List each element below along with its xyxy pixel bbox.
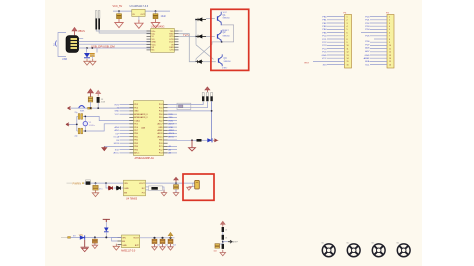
wire RXD to crossover (down then right) bbox=[179, 34, 197, 62]
svg-text:SDA: SDA bbox=[365, 60, 370, 63]
svg-text:GND: GND bbox=[134, 111, 139, 113]
svg-text:ADC7: ADC7 bbox=[169, 123, 175, 126]
capacitor C10 (orange) bbox=[152, 239, 157, 243]
svg-text:7: 7 bbox=[347, 36, 348, 38]
svg-text:5: 5 bbox=[347, 29, 348, 31]
wire R2 to MCU PC5 bbox=[168, 101, 208, 108]
svg-text:PC3: PC3 bbox=[159, 153, 163, 155]
svg-text:DTR: DTR bbox=[169, 39, 174, 41]
power bar symbol (above D10) bbox=[103, 219, 110, 222]
power flag above C12 (tan) bbox=[168, 233, 172, 238]
svg-text:PD6: PD6 bbox=[134, 127, 138, 129]
wire UD+ (from ESD D2 to IC1) bbox=[99, 30, 150, 34]
wire D3 to Q1 base bbox=[206, 18, 215, 20]
svg-text:UD-: UD- bbox=[152, 34, 156, 36]
wire stub F1 to reset rail bbox=[90, 102, 92, 108]
junction C10 bbox=[153, 237, 155, 239]
wire R1 to MCU PC4 bbox=[168, 101, 204, 104]
pull-up resistor R2 bbox=[206, 93, 208, 97]
ground arrow (left of crystal) bbox=[66, 123, 69, 126]
svg-text:AREF: AREF bbox=[364, 57, 370, 60]
svg-text:VCC: VCC bbox=[223, 12, 228, 14]
svg-text:MOSI: MOSI bbox=[114, 143, 120, 145]
MCU right net labels (blue) bbox=[169, 114, 175, 155]
ground on LED row bbox=[189, 140, 196, 151]
svg-text:GND: GND bbox=[124, 188, 129, 190]
svg-text:6: 6 bbox=[347, 32, 348, 34]
svg-text:USB_DP/USB_DM: USB_DP/USB_DM bbox=[91, 44, 115, 48]
capacitor C5 (crystal top) bbox=[77, 115, 78, 117]
svg-text:CTS: CTS bbox=[170, 50, 175, 52]
ground under U5 (hollow) bbox=[113, 244, 119, 250]
svg-text:10uF: 10uF bbox=[161, 15, 167, 18]
svg-text:PD3: PD3 bbox=[134, 104, 138, 106]
header P1 pin numbers (inside) bbox=[347, 16, 349, 66]
svg-text:47u: 47u bbox=[99, 188, 102, 190]
junction Q2 emitter bbox=[221, 41, 223, 43]
svg-text:11: 11 bbox=[347, 48, 349, 50]
input pad (gold) bbox=[61, 236, 68, 238]
ground under FB1 bbox=[161, 190, 166, 196]
wire stub D6 to reset rail bbox=[97, 103, 99, 108]
capacitor C4 (vertical plates) bbox=[90, 54, 95, 56]
svg-text:12: 12 bbox=[347, 52, 349, 54]
svg-text:PC2: PC2 bbox=[159, 149, 163, 151]
wire USB D+ to IC1 bbox=[79, 43, 151, 45]
diode D6 (vertical, black) bbox=[97, 97, 100, 103]
wire rail to U5 pins bbox=[112, 237, 122, 241]
MCU left net wires bbox=[104, 105, 129, 153]
junction crystal bottom bbox=[84, 130, 86, 132]
highlight rectangle 1 (red) bbox=[211, 9, 249, 70]
wire crystal taps bbox=[84, 116, 86, 131]
svg-text:16: 16 bbox=[347, 64, 349, 66]
diode D4 (series, row2) bbox=[196, 35, 206, 38]
capacitor C7 (electrolytic) bbox=[95, 183, 97, 185]
svg-text:PB1: PB1 bbox=[134, 136, 138, 138]
wire vertical link diode1-diode2 bbox=[195, 20, 197, 37]
ground under C8 bbox=[173, 190, 178, 196]
svg-text:ADC6: ADC6 bbox=[169, 132, 175, 135]
svg-text:PC6: PC6 bbox=[159, 111, 163, 113]
junction D6/rail bbox=[97, 107, 99, 109]
wire U3 GND pin bbox=[138, 16, 140, 20]
junction R3/PC6 bbox=[211, 110, 213, 112]
power flag at C8 node bbox=[174, 177, 178, 182]
U4 pin names bbox=[124, 183, 129, 194]
svg-text:14: 14 bbox=[347, 58, 349, 60]
wire U1 TXD pin to net label bbox=[179, 30, 183, 32]
svg-text:RXD: RXD bbox=[169, 114, 174, 116]
junction C8 top bbox=[175, 182, 177, 184]
ESD diode D1 (vertical, black) bbox=[96, 11, 98, 19]
svg-text:RTS: RTS bbox=[170, 36, 175, 38]
svg-text:10: 10 bbox=[389, 45, 391, 47]
svg-text:PD4: PD4 bbox=[134, 107, 138, 109]
svg-text:DCD: DCD bbox=[169, 42, 174, 44]
wire R6-R7 bbox=[222, 232, 224, 235]
diode D10 (blue, vertical) bbox=[105, 222, 107, 228]
svg-text:PWRIN: PWRIN bbox=[73, 181, 82, 185]
pull-up resistor R3 bbox=[211, 93, 213, 97]
junction on GND rail at LED bbox=[86, 47, 88, 49]
svg-text:TXD: TXD bbox=[183, 34, 189, 38]
IC U1 body bbox=[151, 28, 175, 52]
junction right bbox=[155, 10, 157, 12]
svg-text:PD2: PD2 bbox=[159, 120, 163, 122]
svg-text:VCC_5V: VCC_5V bbox=[113, 5, 123, 8]
wire input rail bbox=[71, 236, 122, 238]
svg-text:USB: USB bbox=[62, 58, 67, 61]
svg-text:PC4: PC4 bbox=[159, 104, 163, 106]
power arrow right (LED row) bbox=[214, 139, 218, 142]
svg-text:RXD: RXD bbox=[169, 34, 174, 36]
svg-text:104: 104 bbox=[214, 251, 217, 253]
svg-text:104: 104 bbox=[157, 245, 160, 247]
power flag VCC (top of USB) bbox=[72, 28, 77, 36]
svg-text:RESET: RESET bbox=[222, 30, 229, 32]
junction crystal top bbox=[84, 116, 86, 118]
fuse F1 (yellow) bbox=[88, 97, 92, 102]
junction at C9 bbox=[94, 236, 96, 238]
wire U4 output rail bbox=[146, 182, 195, 184]
svg-text:VCC: VCC bbox=[152, 44, 157, 46]
svg-text:AVCC: AVCC bbox=[113, 152, 119, 155]
svg-text:VIN: VIN bbox=[124, 183, 128, 185]
svg-text:GND: GND bbox=[322, 55, 327, 57]
mounting hole M4 bbox=[397, 244, 410, 257]
crystal Y1 (blue circle) bbox=[83, 121, 87, 125]
svg-text:2: 2 bbox=[347, 20, 348, 22]
LED L2 (blue) bbox=[207, 138, 212, 142]
IC U1 left pin stubs bbox=[147, 31, 151, 50]
wire stub to cap bbox=[96, 48, 98, 53]
highlight rectangle 2 (red) bbox=[183, 174, 214, 200]
wire R3 down to LED node bbox=[211, 101, 213, 140]
svg-text:AVCC: AVCC bbox=[169, 136, 175, 139]
junction C11 bbox=[161, 237, 163, 239]
wire XTAL2 to MCU (with jog) bbox=[83, 124, 134, 131]
svg-text:U3 AMS1117-3.3: U3 AMS1117-3.3 bbox=[130, 5, 149, 8]
svg-text:3: 3 bbox=[389, 23, 390, 25]
transistor Q1 bbox=[218, 12, 222, 25]
pull-up resistor R1 (black, vertical) bbox=[202, 93, 204, 97]
power arrow RESET rail (left) bbox=[68, 107, 71, 110]
ground under U3 bbox=[135, 20, 143, 29]
svg-text:SS8050: SS8050 bbox=[223, 18, 231, 20]
wire 5V input rail bbox=[113, 10, 132, 12]
svg-text:SS8050: SS8050 bbox=[223, 36, 231, 38]
svg-text:ATMEGA328P-AU: ATMEGA328P-AU bbox=[135, 157, 155, 160]
capacitor C9 (orange) bbox=[94, 237, 96, 239]
junction C12 bbox=[169, 237, 171, 239]
svg-text:4: 4 bbox=[347, 26, 348, 28]
svg-text:PC1: PC1 bbox=[159, 146, 163, 148]
diode D3 (series, row1) bbox=[196, 18, 206, 21]
junction crystal common bbox=[76, 124, 78, 126]
svg-text:GND: GND bbox=[365, 55, 370, 57]
wire D4 to Q2 base bbox=[206, 35, 215, 37]
svg-text:PD5: PD5 bbox=[134, 124, 138, 126]
svg-text:XO: XO bbox=[152, 39, 155, 41]
diode D9 (blue, on rail) bbox=[80, 235, 85, 239]
arrow AREF (black) bbox=[228, 240, 232, 243]
wire input lead (pale) bbox=[67, 182, 73, 184]
svg-text:104: 104 bbox=[165, 245, 168, 247]
svg-text:DTR#: DTR# bbox=[222, 68, 228, 70]
junction on GND rail at cap bbox=[91, 47, 93, 49]
svg-text:104: 104 bbox=[173, 245, 176, 247]
svg-text:ATMEGA328_V: ATMEGA328_V bbox=[134, 116, 148, 119]
svg-text:10: 10 bbox=[347, 45, 349, 47]
resistor R4 (gray outline, on PC6 row) bbox=[177, 103, 191, 109]
svg-text:SCK: SCK bbox=[115, 149, 120, 151]
wire C8 to ground bbox=[175, 189, 177, 192]
connector J2 (power out, in red box) bbox=[193, 183, 195, 187]
svg-text:GND: GND bbox=[169, 127, 174, 129]
regulator U4 body bbox=[124, 180, 146, 196]
svg-text:GND: GND bbox=[122, 245, 127, 247]
wire fuse to U4 input bbox=[90, 182, 123, 184]
svg-text:RST: RST bbox=[305, 62, 310, 64]
power flag (above F1) bbox=[88, 89, 93, 97]
svg-text:16MHz: 16MHz bbox=[89, 125, 95, 127]
svg-text:PB3: PB3 bbox=[134, 143, 138, 145]
wire MCU PC6 row bbox=[168, 110, 212, 112]
wire R5 to LED bbox=[202, 139, 208, 141]
svg-text:VOUT: VOUT bbox=[139, 183, 145, 185]
svg-text:AMS1117-5.0: AMS1117-5.0 bbox=[121, 249, 136, 252]
svg-text:16: 16 bbox=[389, 64, 391, 66]
LED L1 (blue) bbox=[84, 53, 90, 58]
MCU U2 pin names (left) bbox=[134, 104, 148, 154]
MCU left net labels (blue) bbox=[113, 104, 119, 154]
wire DTR to series diode row2 bbox=[179, 35, 197, 37]
svg-text:15: 15 bbox=[347, 61, 349, 63]
MCU U2 left pin stubs bbox=[129, 105, 133, 153]
junction D10/rail bbox=[105, 236, 107, 238]
wire RESET rail bbox=[71, 107, 134, 109]
junction at D1 bbox=[195, 19, 197, 21]
svg-text:GND: GND bbox=[152, 42, 157, 44]
wire XTAL1 to MCU (with jog) bbox=[83, 116, 134, 120]
svg-text:9: 9 bbox=[347, 42, 348, 44]
svg-text:VBUS: VBUS bbox=[78, 30, 85, 33]
ground under C9 bbox=[94, 243, 96, 245]
svg-text:PD0: PD0 bbox=[159, 114, 163, 116]
MCU right net wires bbox=[168, 114, 177, 153]
header P1 body bbox=[345, 15, 352, 69]
header P1 pin stubs and wires bbox=[313, 17, 345, 65]
junction F1/rail bbox=[90, 107, 92, 109]
resistor R7 (black, vertical) bbox=[222, 235, 224, 240]
capacitor C2 (right of U3) bbox=[155, 11, 157, 14]
IC U1 pin names (left column) bbox=[152, 31, 157, 52]
svg-text:ADC7: ADC7 bbox=[158, 123, 163, 126]
wire LED row from MCU bbox=[168, 139, 197, 141]
svg-text:VCC: VCC bbox=[115, 114, 120, 116]
junction left bbox=[118, 10, 120, 12]
resistor R5 (black, LED row) bbox=[197, 139, 202, 142]
header P1 net labels (blue) bbox=[322, 16, 328, 66]
header P2 net labels (blue) bbox=[364, 16, 371, 66]
resistor R8 (black, vertical) bbox=[222, 244, 224, 249]
svg-text:TXD: TXD bbox=[169, 117, 174, 119]
power flag (top of chain) bbox=[221, 221, 225, 226]
regulator U5 body bbox=[122, 235, 140, 248]
wire branch down bbox=[106, 183, 124, 188]
svg-text:PB0: PB0 bbox=[134, 133, 138, 135]
mounting hole M2 bbox=[347, 244, 360, 257]
svg-text:13: 13 bbox=[389, 55, 391, 57]
svg-text:VCC: VCC bbox=[322, 58, 327, 60]
svg-text:2: 2 bbox=[389, 20, 390, 22]
wire USB shield loop (blue outline) bbox=[58, 33, 66, 57]
svg-text:GND: GND bbox=[114, 111, 119, 113]
wire node with arrow right bbox=[222, 240, 224, 244]
header P2 pin stubs and wires bbox=[361, 17, 387, 65]
svg-text:PB2: PB2 bbox=[134, 140, 138, 142]
wire crossover X (to transistor bases) bbox=[196, 36, 222, 61]
ground arrow (MCU row 14) bbox=[102, 146, 107, 150]
resistor R6 (black, vertical) bbox=[222, 227, 224, 232]
ESD diode D2 (vertical, black) bbox=[98, 11, 100, 19]
svg-text:4: 4 bbox=[389, 26, 390, 28]
svg-text:7: 7 bbox=[389, 36, 390, 38]
designator brace J1 (blue) bbox=[56, 41, 57, 47]
svg-text:GND: GND bbox=[158, 127, 163, 129]
fuse F2 (black, horizontal) bbox=[86, 181, 91, 185]
svg-text:AREF: AREF bbox=[169, 129, 175, 132]
svg-text:13: 13 bbox=[347, 55, 349, 57]
wire input to fuse bbox=[83, 182, 86, 184]
pushbutton SW1 (blue arc) bbox=[79, 106, 85, 108]
pad at F1 bottom (gold) bbox=[88, 107, 92, 109]
svg-text:BYP: BYP bbox=[135, 245, 140, 247]
svg-text:PC0: PC0 bbox=[159, 143, 163, 145]
svg-text:U4 78M05: U4 78M05 bbox=[126, 198, 138, 201]
U5 pin stubs bbox=[118, 238, 122, 245]
svg-text:VIN: VIN bbox=[122, 238, 126, 240]
diode D5 (series, row3) bbox=[196, 60, 204, 63]
svg-text:1: 1 bbox=[389, 16, 390, 18]
ground stem left (power ground) bbox=[81, 240, 89, 247]
svg-text:12: 12 bbox=[389, 52, 391, 54]
header P2 body bbox=[387, 15, 394, 69]
svg-text:XTAL1: XTAL1 bbox=[134, 119, 140, 122]
svg-text:PB5: PB5 bbox=[134, 149, 138, 151]
svg-text:U2A: U2A bbox=[141, 127, 146, 130]
wire D5 to Q3 base bbox=[203, 61, 216, 63]
svg-text:14: 14 bbox=[389, 58, 391, 60]
svg-text:TXD: TXD bbox=[170, 31, 175, 33]
ground bottom of chain bbox=[220, 250, 225, 256]
pad dot bbox=[82, 182, 84, 184]
wire usb pin1 stub bbox=[79, 38, 84, 40]
junction at C7 bbox=[95, 182, 97, 184]
wire U4 pin2 right bbox=[146, 186, 149, 188]
svg-text:8: 8 bbox=[347, 39, 348, 41]
transistor Q3 bbox=[219, 54, 223, 66]
svg-text:OC1A: OC1A bbox=[113, 136, 119, 139]
regulator U3 body bbox=[132, 9, 145, 16]
svg-text:PB4: PB4 bbox=[134, 146, 138, 148]
svg-text:15: 15 bbox=[389, 61, 391, 63]
svg-text:VOUT: VOUT bbox=[133, 238, 139, 240]
wire stub to LED bbox=[86, 48, 88, 53]
ground at J2 bbox=[187, 187, 193, 191]
MCU U2 body bbox=[134, 101, 164, 156]
mounting hole M3 bbox=[372, 244, 385, 257]
svg-text:PC5: PC5 bbox=[159, 107, 163, 109]
wire D10 to rail bbox=[105, 232, 107, 237]
svg-text:PD1: PD1 bbox=[159, 117, 163, 119]
svg-text:ATMEGA328_U: ATMEGA328_U bbox=[134, 113, 148, 116]
svg-text:22p: 22p bbox=[75, 112, 78, 114]
power flag 2 (above D6) bbox=[96, 90, 101, 96]
svg-text:AVCC: AVCC bbox=[134, 152, 140, 155]
wire U4 pin3 right bbox=[146, 189, 149, 191]
capacitor C1 (left of U3) bbox=[118, 11, 120, 14]
junction gnd/LED row bbox=[191, 139, 193, 141]
wire USB GND rail bbox=[79, 47, 151, 49]
transistor Q2 bbox=[218, 30, 222, 42]
svg-text:11: 11 bbox=[389, 48, 391, 50]
wire U5 output rail bbox=[140, 237, 175, 239]
svg-text:PB5: PB5 bbox=[159, 140, 163, 142]
mounting hole M1 bbox=[322, 244, 335, 257]
capacitor C12 (orange) bbox=[168, 239, 173, 243]
ground under C2 bbox=[151, 19, 159, 28]
wire crystal common bbox=[69, 116, 77, 131]
junction at diode branch bbox=[105, 182, 107, 184]
wire Q1 emitter to Q2 emitter (gray loop) bbox=[222, 25, 234, 42]
wire FB1 out to ground bbox=[162, 187, 164, 192]
ground under cap bbox=[90, 59, 96, 65]
svg-text:5: 5 bbox=[389, 29, 390, 31]
svg-text:PD7: PD7 bbox=[134, 130, 138, 132]
svg-text:PG: PG bbox=[142, 192, 145, 194]
MCU U2 pin names (right) bbox=[157, 104, 163, 154]
connector J1 USB body bbox=[66, 36, 79, 53]
MCU U2 right pin stubs bbox=[163, 105, 167, 153]
svg-text:1: 1 bbox=[347, 16, 348, 18]
ground under C7 bbox=[92, 190, 98, 196]
svg-text:AREF: AREF bbox=[158, 129, 164, 132]
svg-text:DSR: DSR bbox=[169, 47, 174, 49]
svg-text:8: 8 bbox=[389, 39, 390, 41]
IC U1 pin names (right column) bbox=[169, 31, 174, 52]
diode D8 (black body) bbox=[117, 186, 121, 190]
capacitor C6 (crystal bottom) bbox=[77, 130, 78, 132]
capacitor C8 bbox=[175, 183, 177, 185]
ground under LED bbox=[84, 59, 90, 65]
capacitor C13 (left of chain) bbox=[220, 243, 223, 245]
svg-text:6: 6 bbox=[389, 32, 390, 34]
header P2 pin numbers (inside) bbox=[389, 16, 391, 66]
junction at diode row2 input bbox=[195, 36, 197, 38]
ground under C1 bbox=[115, 19, 123, 28]
IC U1 right pin stubs bbox=[174, 31, 178, 50]
diode D7 (red body) bbox=[109, 186, 113, 190]
wire 3.3V output rail bbox=[145, 10, 170, 12]
svg-text:AVCC: AVCC bbox=[157, 135, 163, 138]
power flag above pull-ups bbox=[205, 87, 210, 92]
wire USB D- to IC1 bbox=[79, 40, 151, 42]
svg-text:22p: 22p bbox=[75, 136, 78, 138]
inductor FB1 (black in gray outline) bbox=[149, 186, 163, 191]
wire UD- (from ESD D1 to IC1) bbox=[96, 30, 150, 32]
